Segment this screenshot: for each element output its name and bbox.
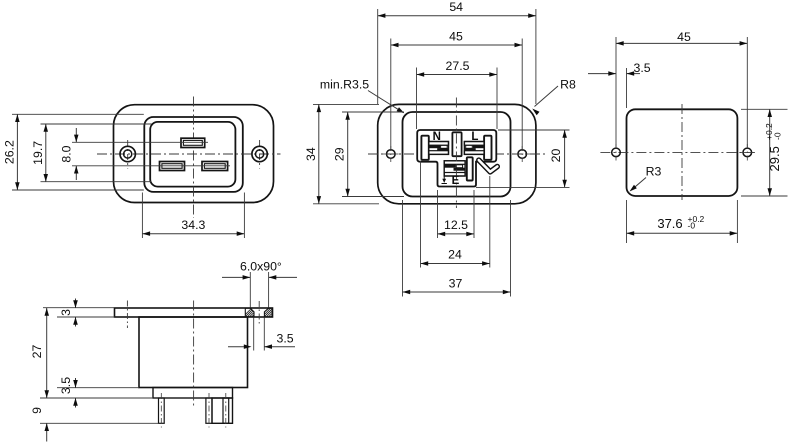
dim 37.6 +0.2/-0 xyxy=(627,214,738,235)
svg-text:37.6: 37.6 xyxy=(657,216,682,231)
svg-text:12.5: 12.5 xyxy=(444,218,468,232)
dim 45 right xyxy=(616,30,747,46)
dim 8.0 extension lines xyxy=(72,142,230,166)
side ext line body bottom xyxy=(57,387,139,389)
dim 3 side xyxy=(59,299,78,327)
svg-text:3: 3 xyxy=(59,309,73,316)
label L xyxy=(471,131,478,143)
svg-text:min.R3.5: min.R3.5 xyxy=(320,78,369,92)
dim 37 xyxy=(403,277,511,295)
svg-text:E: E xyxy=(452,175,460,187)
side view earth pin housing xyxy=(212,398,233,423)
svg-text:9: 9 xyxy=(30,407,44,414)
dim 8.0 xyxy=(60,128,79,180)
svg-text:26.2: 26.2 xyxy=(2,140,16,164)
dim 26.2 xyxy=(2,114,19,190)
dim 6.0x90 extension lines xyxy=(250,272,268,308)
left view left hole crosshair xyxy=(127,140,129,169)
dim 26.2 extension lines xyxy=(12,114,144,190)
dim 3.5 hole extension lines xyxy=(254,318,265,351)
side view pin 1 xyxy=(159,393,165,428)
svg-text:19.7: 19.7 xyxy=(31,141,45,165)
svg-text:-0: -0 xyxy=(688,220,696,230)
right view cutout outline xyxy=(627,109,738,196)
left view horizontal centerline xyxy=(97,153,281,155)
middle view recess outline xyxy=(417,130,496,187)
dim 3.5 right-view extension line xyxy=(626,68,628,108)
svg-text:54: 54 xyxy=(449,0,463,14)
dim 29 extension lines xyxy=(342,112,404,197)
svg-text:45: 45 xyxy=(449,30,463,44)
dim 29 xyxy=(333,112,350,197)
svg-text:37: 37 xyxy=(449,277,463,291)
svg-text:3.5: 3.5 xyxy=(634,61,651,75)
dim 27 side xyxy=(30,308,49,398)
middle view body outline xyxy=(403,112,511,197)
middle view left mounting hole xyxy=(383,146,399,162)
svg-text:24: 24 xyxy=(448,248,462,262)
dim 24 xyxy=(421,248,490,266)
svg-text:L: L xyxy=(471,131,478,143)
middle view N-L contacts centerline xyxy=(418,147,495,149)
side ext line flange top xyxy=(43,307,115,309)
svg-text:27.5: 27.5 xyxy=(446,59,470,73)
left view right hole crosshair xyxy=(259,140,261,169)
side ext line block bottom xyxy=(40,397,153,399)
dim 34 xyxy=(304,104,321,203)
dim 34.3 xyxy=(142,218,244,236)
dim 3.5 hole xyxy=(228,332,295,349)
svg-text:34.3: 34.3 xyxy=(181,218,205,232)
dim 9 side xyxy=(30,407,49,442)
label R8 xyxy=(532,78,576,116)
dim 20 xyxy=(549,130,567,187)
side ext line pin bottom xyxy=(40,422,159,424)
earth symbol xyxy=(442,177,447,184)
dim 3.5 side-left xyxy=(59,377,78,408)
svg-text:45: 45 xyxy=(677,30,691,44)
left view left mounting hole xyxy=(120,146,135,161)
svg-text:-0: -0 xyxy=(773,132,783,140)
dim 19.7 xyxy=(31,124,48,182)
side ext line flange bottom xyxy=(57,316,115,318)
dim 45 xyxy=(391,30,522,48)
dim 29.5 extension lines xyxy=(741,109,788,196)
dim 37 extension lines xyxy=(403,200,511,297)
dim 54 xyxy=(378,0,536,18)
middle view flange outline xyxy=(378,104,536,203)
dim 12.5 extension lines xyxy=(438,190,475,238)
svg-text:8.0: 8.0 xyxy=(60,145,74,162)
label N xyxy=(433,131,441,143)
dim 45 right extension lines xyxy=(616,37,747,148)
middle view horizontal centerline xyxy=(368,153,547,155)
dim 29.5 +0.2/-0 xyxy=(764,109,783,196)
left view vertical centerline xyxy=(193,97,195,219)
right view right hole xyxy=(740,144,756,161)
dim 37.6 extension lines xyxy=(627,200,738,243)
dim 24 extension lines xyxy=(421,161,490,268)
svg-text:27: 27 xyxy=(30,345,44,359)
left view bottom-right pin slot xyxy=(202,162,228,171)
svg-text:R3: R3 xyxy=(646,165,662,179)
right view left hole xyxy=(612,144,621,161)
dim 20 extension lines xyxy=(476,130,570,187)
svg-text:34: 34 xyxy=(304,147,318,161)
right view horizontal centerline xyxy=(600,151,756,153)
dim 27.5 extension lines xyxy=(417,68,498,130)
dim 27.5 xyxy=(417,59,498,77)
contact N xyxy=(421,136,448,160)
dim 34 extension lines xyxy=(313,104,379,203)
svg-text:20: 20 xyxy=(549,149,563,163)
left view recess outline xyxy=(150,122,235,187)
side view centerline xyxy=(193,301,195,408)
dim 45 extension lines xyxy=(391,39,522,150)
svg-text:29.5: 29.5 xyxy=(767,146,782,171)
right view vertical centerline xyxy=(681,104,683,200)
side view pin 3 xyxy=(223,393,229,428)
dim 3.5 right-view xyxy=(588,61,651,76)
dim 12.5 xyxy=(438,218,475,236)
side view pin 2 xyxy=(206,393,212,428)
side view left hole centerline xyxy=(126,301,128,329)
dim 6.0x90 xyxy=(222,260,297,280)
left view bottom-left pin slot xyxy=(160,162,185,171)
dim 19.7 extension lines xyxy=(41,124,152,182)
countersunk hole section xyxy=(243,308,286,317)
middle view E contact centerline xyxy=(441,167,477,169)
center rib xyxy=(452,132,461,156)
hook clip xyxy=(479,160,498,172)
side view flange plate xyxy=(115,308,273,317)
left view flange outline xyxy=(114,105,274,203)
label E xyxy=(452,175,460,187)
side view terminal block xyxy=(153,388,233,399)
left view right mounting hole xyxy=(252,146,267,161)
svg-text:3.5: 3.5 xyxy=(59,377,73,394)
middle view right mounting hole xyxy=(514,146,530,162)
dim 34.3 extension lines xyxy=(142,193,244,239)
svg-text:29: 29 xyxy=(333,147,347,161)
side view right hole centerline xyxy=(258,301,260,326)
svg-text:R8: R8 xyxy=(560,78,576,92)
side view body xyxy=(139,317,248,388)
left view top pin slot xyxy=(181,138,205,147)
middle view vertical centerline xyxy=(455,98,457,209)
contact L xyxy=(464,136,491,160)
label min.R3.5 xyxy=(320,78,404,114)
label R3 xyxy=(630,165,662,192)
contact E xyxy=(444,157,472,180)
dim 54 extension lines xyxy=(378,9,536,104)
left view body outline xyxy=(144,117,243,192)
svg-text:6.0x90°: 6.0x90° xyxy=(240,260,282,274)
svg-text:3.5: 3.5 xyxy=(277,332,294,346)
svg-text:N: N xyxy=(433,131,441,143)
